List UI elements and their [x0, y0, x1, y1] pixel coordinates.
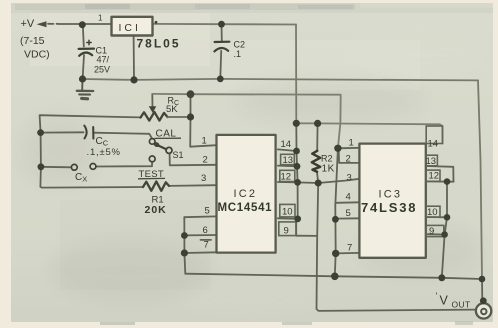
wire IC2 pin5 stub [184, 215, 216, 218]
terminal Cx right [90, 164, 96, 170]
label R1 value [145, 195, 167, 217]
junction Rc right end [187, 113, 194, 120]
svg-text:9: 9 [429, 226, 434, 237]
wire IC2 right pins bus vertical [296, 123, 298, 235]
tab IC2 pin12 [280, 170, 295, 181]
svg-text:S1: S1 [173, 150, 184, 160]
wire IC1 output +5V rail [153, 23, 297, 26]
tab IC3 pin14 [426, 126, 442, 144]
IC U1 regulator box [112, 17, 153, 36]
wire C2 top lead [221, 24, 223, 41]
wire Rc wiper riser [151, 94, 153, 108]
wire IC2 pin6 stub [184, 234, 216, 236]
svg-text:5: 5 [346, 208, 351, 219]
svg-text:4: 4 [346, 192, 351, 203]
svg-text:12: 12 [281, 172, 292, 183]
junction Rc wiper wire / right riser [187, 90, 195, 98]
junction IC3 pin9 [441, 231, 448, 238]
resistor R2 1K [312, 151, 320, 172]
svg-text:25V: 25V [94, 65, 110, 75]
wiper arrowhead [149, 106, 157, 113]
wire S1 pivot to IC2 pin2 [170, 154, 217, 166]
wire IC3 pin1-2 tab loop [339, 148, 360, 163]
svg-text:1K: 1K [322, 164, 335, 175]
wire IC2 pin10 stub [278, 217, 298, 220]
svg-text:7: 7 [204, 240, 209, 251]
pin labels IC2 left [201, 136, 210, 251]
junction IC2 pin6 [181, 232, 188, 239]
resistor Rc 5K [141, 112, 168, 121]
junction IC3 pin7 riser / lower rail [331, 273, 339, 281]
junction IC3 pin1 [334, 145, 341, 152]
svg-text:6: 6 [203, 225, 208, 236]
junction IC3 pin5 [332, 216, 339, 223]
svg-text:2: 2 [203, 155, 208, 166]
wire R2 bottom to junction [317, 172, 318, 183]
switch S1 CAL contact [149, 139, 155, 145]
wire +5 horizontal to IC3 pin 14 [296, 123, 442, 143]
svg-text:12: 12 [429, 171, 440, 182]
svg-text:': ' [436, 291, 438, 301]
capacitor C2 [214, 42, 229, 52]
junction IC2 pin12 [294, 179, 301, 186]
wire +V to IC1 pin1 [59, 23, 112, 25]
switch S1 pivot [166, 147, 172, 153]
junction C2 bottom / ground rail [217, 76, 224, 83]
junction C1 bottom / ground rail [79, 75, 86, 82]
junction R2 bottom node [315, 180, 322, 187]
wire Vout riser [481, 279, 483, 301]
label CAL [155, 129, 182, 140]
wire IC3 pin5 stub [336, 217, 360, 219]
wire R2 junction to IC3 pin3 [318, 179, 359, 183]
svg-text:3: 3 [347, 173, 352, 184]
junction IC3 right bus / lower rail [438, 274, 445, 281]
junction IC2 pin13 [294, 163, 301, 170]
tab IC2 pin10 [280, 204, 295, 217]
wire IC2 pin9 to R2 net [296, 235, 317, 237]
wire Rc right lead [168, 116, 191, 118]
pin number tabs [279, 126, 444, 237]
wire IC3 pin13 dogleg [426, 166, 454, 182]
label C2 value [234, 40, 246, 60]
wire IC3 pin9 stub [426, 233, 445, 235]
junction IC3 pin10 [444, 214, 451, 221]
Vout jack [476, 303, 491, 318]
pin labels IC3 left [346, 138, 354, 254]
svg-text:13: 13 [283, 155, 294, 166]
wire Cc right lead to CAL contact [93, 133, 152, 139]
terminal Cx left [71, 164, 77, 170]
svg-text:V: V [440, 294, 449, 308]
resistor R1 20K [143, 181, 169, 190]
svg-text:1: 1 [349, 138, 354, 149]
wire IC3 pin1 stub [338, 147, 360, 150]
svg-text:VDC): VDC) [24, 49, 50, 61]
junction +5V rail / C2 top [218, 21, 225, 28]
node +V input arrow [37, 21, 59, 27]
svg-text:9: 9 [284, 226, 289, 237]
junction +5V drop / R2 top wire [293, 120, 300, 127]
switch S1 moving contact blob [153, 141, 160, 148]
tab IC3 pin9 [426, 225, 444, 236]
junction IC2 pin10 [294, 216, 301, 223]
switch S1 arm [156, 144, 167, 149]
node IC1 output tick [155, 21, 158, 24]
capacitor C1 [79, 40, 94, 56]
svg-text:CX: CX [75, 172, 87, 184]
svg-text:10: 10 [427, 207, 438, 218]
wire IC2 pin13 stub [278, 165, 297, 168]
junction IC3 pin12 [444, 178, 451, 185]
svg-text:5K: 5K [166, 104, 178, 115]
wire IC2 pin14 stub [278, 149, 297, 151]
wire lower ground rail [185, 274, 482, 279]
tab IC3 pin13 [426, 155, 437, 166]
svg-text:14: 14 [428, 139, 439, 150]
wire Cx left lead [41, 166, 71, 169]
wire IC3 pin7 stub [336, 252, 360, 255]
svg-text:74LS38: 74LS38 [361, 200, 417, 215]
label R2 value [321, 154, 335, 175]
junction IC3 pin7 [332, 250, 339, 257]
wire IC3 right bus vertical [442, 182, 447, 278]
wire Cx right to TEST contact [96, 162, 152, 167]
svg-text:IC3: IC3 [379, 189, 403, 201]
IC U2 MC14541 box [217, 135, 276, 253]
tab IC3 pin10 [426, 206, 440, 217]
pin labels IC3 right [426, 139, 440, 238]
wire ground rail top [83, 79, 479, 81]
wire IC2 pin7 stub [184, 251, 216, 254]
junction lower rail / right edge [479, 276, 486, 283]
op-amp boxes: ICs [112, 17, 426, 258]
label Vout [436, 291, 471, 310]
wire IC2 pin12 stub [278, 181, 298, 183]
ground symbol [77, 79, 93, 99]
svg-text:R2: R2 [321, 154, 333, 164]
switch S1 TEST contact [149, 156, 155, 162]
junction IC1 gnd / ground rail [130, 76, 137, 83]
junction left rail / Cx lead [38, 163, 45, 170]
svg-text:47/: 47/ [97, 55, 110, 65]
wire R2 branch vertical [316, 123, 318, 150]
svg-text:10: 10 [282, 207, 293, 218]
wire IC3 pin12 stub [426, 180, 454, 182]
wire C2 bottom lead [219, 51, 222, 79]
svg-text:CC: CC [96, 136, 109, 148]
wire Cc left lead [41, 131, 84, 133]
tab line IC2 pin7 [201, 239, 212, 241]
label TEST [138, 169, 165, 180]
wire IC3 pin4 stub [336, 201, 360, 204]
svg-text:20K: 20K [145, 204, 167, 216]
wire oscillator left loop [40, 115, 143, 187]
wire R2 junction to IC2 pin12 [298, 181, 319, 184]
wire R2 junction down to Vout bottom wire [317, 183, 476, 311]
label C1 value [94, 46, 110, 75]
svg-text:.1: .1 [234, 49, 242, 59]
wire IC3 pin10 stub [426, 216, 447, 218]
wire C1 top lead [83, 25, 84, 47]
svg-text:(7-15: (7-15 [20, 35, 45, 47]
wire IC1 ground riser [133, 36, 135, 80]
wire Rc top to IC3 pin1 riser [152, 94, 340, 148]
wire R1 right lead to IC2 pin3 [169, 184, 217, 187]
capacitor Cc [84, 126, 93, 139]
junction IC2 pin7 [181, 249, 188, 256]
label +V supply [20, 18, 50, 61]
tab IC3 pin12 [426, 170, 440, 181]
svg-text:IC2: IC2 [234, 188, 258, 200]
svg-text:+V: +V [21, 18, 35, 30]
wire IC3 left bus vertical [335, 148, 338, 276]
svg-text:OUT: OUT [452, 300, 471, 310]
wire IC2 pins 5-6-7 riser [184, 217, 185, 274]
junction left rail / Cc lead [37, 129, 44, 136]
wire right edge vertical (gnd) [478, 80, 482, 279]
svg-text:78L05: 78L05 [137, 37, 181, 51]
IC U3 74LS38 box [359, 144, 425, 258]
junction R2 top [314, 120, 321, 127]
svg-text:MC14541: MC14541 [218, 202, 273, 214]
label Rc [166, 96, 179, 115]
pin labels IC2 right [281, 139, 294, 237]
svg-text:1: 1 [202, 136, 207, 147]
svg-text:5: 5 [205, 206, 210, 217]
junction IC2 pin14 [293, 148, 300, 155]
junction Vout riser blob [480, 297, 487, 304]
svg-text:ICI: ICI [119, 22, 141, 34]
tab IC2 pin13 [281, 154, 295, 164]
svg-text:3: 3 [201, 173, 206, 184]
svg-text:.1,±5%: .1,±5% [87, 147, 121, 158]
svg-text:1: 1 [98, 14, 103, 23]
junction +V / C1 top [79, 21, 86, 28]
svg-text:14: 14 [281, 139, 292, 150]
svg-text:7: 7 [347, 243, 352, 254]
tab IC2 pin9 [279, 222, 296, 236]
wire Rc right riser to IC2 pin1 [190, 94, 216, 147]
svg-text:13: 13 [426, 156, 437, 167]
wire C1 bottom lead to ground [83, 55, 84, 79]
svg-text:C2: C2 [234, 40, 246, 50]
svg-text:2: 2 [346, 154, 351, 165]
wire +5 vertical drop x=296 [295, 25, 297, 124]
